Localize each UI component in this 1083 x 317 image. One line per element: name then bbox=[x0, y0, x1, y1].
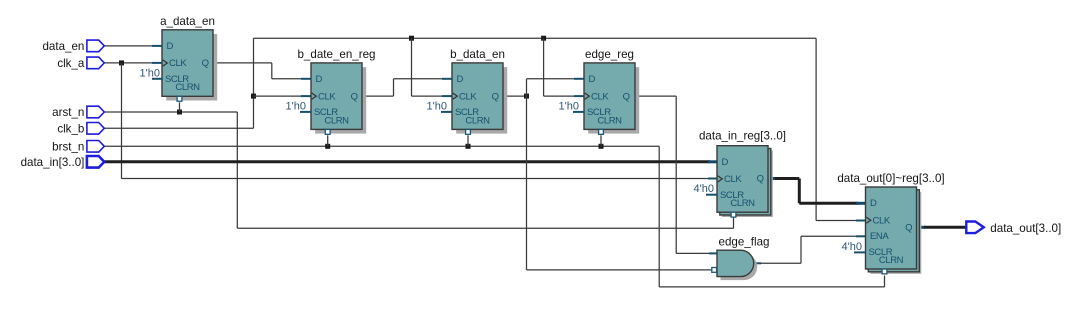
svg-text:CLK: CLK bbox=[318, 91, 336, 102]
svg-text:1'h0: 1'h0 bbox=[286, 100, 306, 112]
svg-text:D: D bbox=[870, 198, 877, 209]
svg-text:Q: Q bbox=[351, 91, 358, 102]
svg-text:CLRN: CLRN bbox=[465, 115, 490, 126]
svg-text:1'h0: 1'h0 bbox=[427, 100, 447, 112]
svg-text:CLK: CLK bbox=[169, 58, 187, 69]
svg-text:D: D bbox=[167, 41, 174, 52]
svg-text:CLK: CLK bbox=[459, 91, 477, 102]
svg-text:b_date_en_reg: b_date_en_reg bbox=[297, 48, 375, 61]
svg-text:Q: Q bbox=[905, 223, 912, 234]
svg-text:edge_reg: edge_reg bbox=[585, 48, 634, 61]
svg-text:a_data_en: a_data_en bbox=[160, 15, 215, 28]
svg-text:CLRN: CLRN bbox=[597, 115, 622, 126]
svg-text:CLRN: CLRN bbox=[730, 198, 755, 209]
svg-text:Q: Q bbox=[757, 174, 764, 185]
svg-text:clk_b: clk_b bbox=[57, 122, 84, 135]
svg-text:CLK: CLK bbox=[873, 215, 891, 226]
svg-text:4'h0: 4'h0 bbox=[842, 241, 862, 253]
svg-text:D: D bbox=[589, 74, 596, 85]
svg-text:CLRN: CLRN bbox=[324, 115, 349, 126]
svg-text:ENA: ENA bbox=[870, 231, 889, 242]
svg-text:4'h0: 4'h0 bbox=[694, 183, 714, 195]
svg-text:data_out[3..0]: data_out[3..0] bbox=[990, 222, 1061, 235]
svg-text:CLRN: CLRN bbox=[175, 82, 200, 93]
svg-text:arst_n: arst_n bbox=[52, 106, 84, 119]
svg-text:clk_a: clk_a bbox=[57, 57, 85, 70]
svg-text:CLK: CLK bbox=[591, 91, 609, 102]
svg-text:CLRN: CLRN bbox=[879, 255, 904, 266]
svg-text:data_en: data_en bbox=[42, 40, 84, 53]
svg-text:D: D bbox=[722, 157, 729, 168]
svg-text:Q: Q bbox=[623, 91, 630, 102]
svg-text:data_in[3..0]: data_in[3..0] bbox=[21, 156, 85, 169]
svg-text:D: D bbox=[316, 74, 323, 85]
svg-text:D: D bbox=[457, 74, 464, 85]
svg-text:CLK: CLK bbox=[724, 174, 742, 185]
svg-text:1'h0: 1'h0 bbox=[559, 100, 579, 112]
svg-text:1'h0: 1'h0 bbox=[140, 67, 160, 79]
svg-text:data_out[0]~reg[3..0]: data_out[0]~reg[3..0] bbox=[837, 172, 944, 185]
svg-text:data_in_reg[3..0]: data_in_reg[3..0] bbox=[699, 130, 786, 143]
svg-text:Q: Q bbox=[492, 91, 499, 102]
svg-text:b_data_en: b_data_en bbox=[450, 48, 505, 61]
svg-text:Q: Q bbox=[202, 58, 209, 69]
svg-text:brst_n: brst_n bbox=[52, 140, 84, 153]
svg-text:edge_flag: edge_flag bbox=[719, 235, 770, 248]
